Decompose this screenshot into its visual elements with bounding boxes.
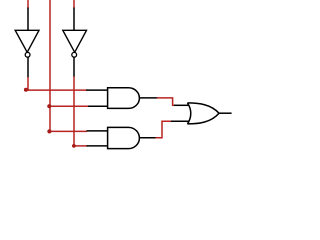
wire row to AND U4 input 2 [73, 145, 87, 147]
wire input C top segment [73, 0, 75, 9]
node dot B to U4 [47, 129, 51, 133]
inverter U2 triangle [63, 30, 87, 52]
and-gate U3 input leg 2 [88, 105, 108, 107]
inverter U1 bubble [25, 52, 30, 57]
inverter U2 bubble [72, 52, 77, 57]
inverter U1 input leg [27, 8, 29, 31]
node dot U2 corner [72, 144, 76, 148]
inverter U2 input leg [73, 8, 75, 31]
node dot at U1 corner [24, 88, 28, 92]
or-gate U5 input leg 1 [174, 104, 190, 106]
wire U4 output to OR U5 [156, 121, 172, 138]
wire row to AND U3 input 2 [49, 105, 88, 107]
inverter U1 output leg [27, 57, 29, 77]
and-gate U3 input leg 1 [86, 89, 107, 91]
wire input B vertical [49, 0, 51, 131]
wire row to AND U3 input 1 [26, 89, 88, 91]
wire input A top segment [27, 0, 29, 9]
and-gate U4 input leg 2 [87, 145, 108, 147]
and-gate U4 input leg 1 [87, 130, 108, 132]
wire U1 output vertical [27, 77, 29, 90]
wire U2 output vertical [73, 77, 75, 146]
node dot B to U3 [47, 104, 51, 108]
wire row to AND U4 input 1 [49, 130, 87, 132]
or-gate U5 body [187, 103, 219, 124]
and-gate U3 output leg [139, 97, 157, 99]
inverter U2 output leg [73, 57, 75, 77]
wire U3 output to OR U5 [157, 98, 175, 105]
or-gate U5 input leg 2 [171, 120, 190, 122]
or-gate U5 output leg [219, 112, 232, 114]
and-gate U3 body [108, 88, 140, 109]
inverter U1 triangle [15, 30, 39, 52]
and-gate U4 body [108, 127, 140, 148]
and-gate U4 output leg [139, 137, 156, 139]
